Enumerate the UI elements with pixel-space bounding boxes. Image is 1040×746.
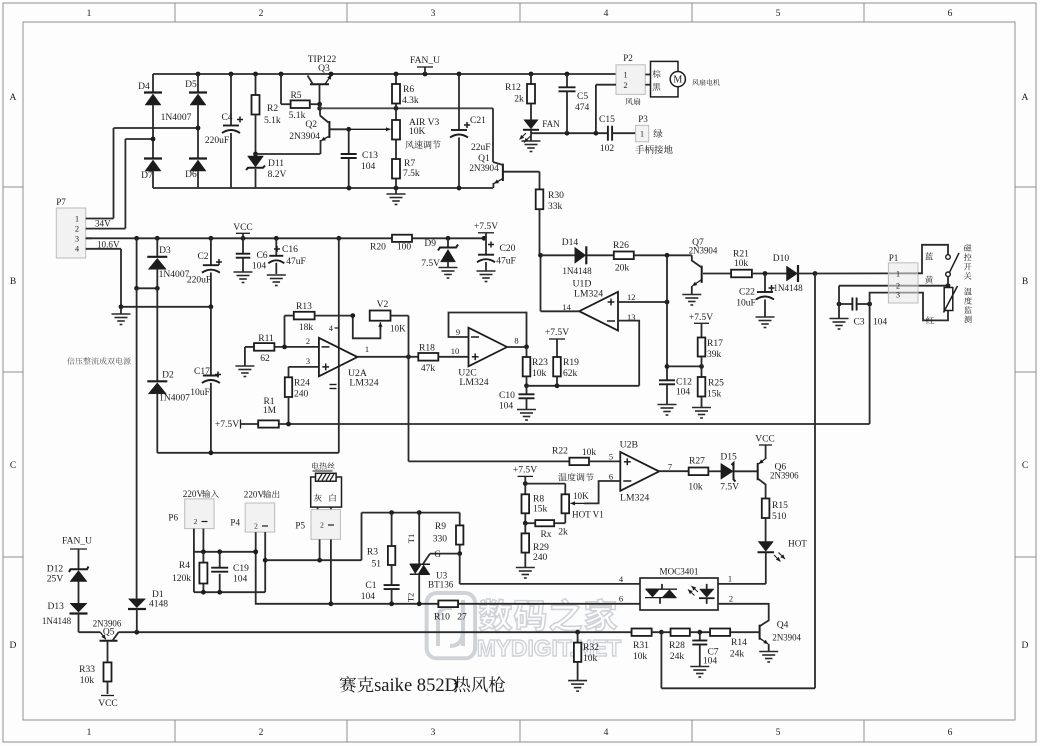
svg-text:1N4007: 1N4007 (161, 112, 192, 123)
svg-text:D6: D6 (185, 169, 197, 180)
svg-text:10uF: 10uF (190, 387, 210, 398)
wire triac bottom row (331, 601, 439, 606)
resistor R10 (434, 601, 640, 623)
ground R29 (516, 568, 535, 579)
resistor R26 (587, 240, 692, 274)
resistor R8 (522, 484, 548, 524)
ground C16 (267, 275, 286, 286)
svg-text:R12: R12 (505, 82, 521, 93)
svg-text:D5: D5 (185, 79, 197, 90)
svg-text:R9: R9 (435, 521, 446, 532)
zener D12 (47, 564, 89, 604)
ground C12 (658, 405, 677, 416)
svg-text:7: 7 (668, 462, 672, 472)
svg-text:LM324: LM324 (349, 378, 378, 389)
svg-text:C16: C16 (282, 244, 298, 255)
resistor R6 (392, 74, 419, 120)
diode D3 (147, 238, 189, 288)
svg-text:120k: 120k (172, 573, 191, 584)
svg-text:5.1k: 5.1k (289, 110, 306, 121)
resistor R4 (172, 552, 207, 592)
svg-text:D3: D3 (159, 245, 171, 256)
optocoupler MOC3401 (619, 567, 733, 611)
ground R11 (235, 347, 254, 377)
wire P5 right pin (329, 539, 334, 606)
svg-text:LM324: LM324 (574, 289, 603, 300)
wire negative rail loop (157, 450, 338, 455)
svg-text:P7: P7 (56, 197, 66, 207)
svg-text:1N4148: 1N4148 (42, 616, 72, 626)
svg-text:P2: P2 (623, 53, 633, 63)
zener D11 (246, 152, 287, 188)
wire R23 R19 pin13 row (524, 383, 639, 388)
svg-text:9: 9 (456, 327, 460, 337)
svg-text:BT136: BT136 (428, 580, 454, 590)
transistor Q5 2N3906 (93, 619, 122, 663)
svg-text:2: 2 (623, 81, 627, 90)
svg-text:47uF: 47uF (286, 256, 306, 267)
svg-text:D: D (1022, 640, 1029, 651)
wire pin12 column (665, 255, 670, 380)
svg-text:D13: D13 (47, 601, 64, 612)
ground C22 (756, 317, 775, 328)
svg-text:5: 5 (609, 452, 613, 462)
ground C3 (830, 304, 849, 329)
connector P3 (636, 114, 649, 142)
svg-text:R4: R4 (179, 560, 190, 571)
svg-text:5.1k: 5.1k (264, 115, 281, 126)
wire U2A output node (357, 316, 411, 462)
resistor R24 (285, 377, 310, 424)
svg-text:24k: 24k (670, 651, 685, 662)
svg-text:C: C (1022, 460, 1028, 471)
label T2 (406, 593, 416, 602)
svg-text:10k: 10k (583, 653, 598, 664)
node +7.5V temp divider (513, 465, 537, 484)
capacitor C20 (477, 238, 516, 271)
svg-text:VCC: VCC (98, 698, 118, 709)
wire U1D output to node (538, 253, 579, 311)
wire U1D pin12 (618, 300, 669, 305)
svg-text:1: 1 (896, 269, 900, 278)
svg-text:10k: 10k (688, 482, 703, 493)
svg-text:+7.5V: +7.5V (215, 419, 239, 430)
svg-text:2: 2 (320, 521, 324, 530)
svg-text:22uF: 22uF (471, 142, 491, 153)
svg-text:R33: R33 (79, 664, 95, 675)
svg-text:C1: C1 (365, 580, 376, 591)
node +7.5V rail end (474, 221, 498, 238)
resistor R7 (392, 140, 420, 189)
svg-text:2: 2 (194, 517, 198, 526)
resistor R19 (553, 357, 579, 386)
wire U1D pin13 loop (618, 321, 639, 386)
resistor Rx (523, 520, 568, 540)
svg-text:1: 1 (87, 727, 92, 738)
svg-text:Q4: Q4 (777, 620, 789, 631)
wire P7 pin4 to ground (86, 249, 121, 307)
wire C15 to P3 (612, 132, 636, 134)
connector P6 (168, 489, 219, 529)
resistor R9 (433, 513, 464, 554)
transistor Q6 2N3906 (758, 459, 799, 499)
svg-text:G: G (434, 549, 441, 559)
wire C3 left to pin2 net (838, 286, 840, 304)
svg-text:R26: R26 (613, 240, 629, 251)
wire P7 pin3 10.6V (86, 238, 120, 249)
svg-text:15k: 15k (533, 504, 548, 515)
svg-text:10k: 10k (633, 651, 648, 662)
svg-text:MOC3401: MOC3401 (660, 567, 699, 577)
svg-text:330: 330 (433, 534, 448, 545)
node +7.5V R17 (689, 312, 713, 338)
resistor R31 (632, 629, 664, 663)
svg-text:2N3904: 2N3904 (772, 633, 801, 643)
svg-text:6: 6 (948, 727, 953, 738)
label fan (625, 98, 640, 105)
svg-text:7.5V: 7.5V (421, 258, 440, 269)
label magnetic switch vertical (964, 244, 972, 279)
wire P1 pin1 blue to switch (918, 245, 948, 273)
svg-text:+7.5V: +7.5V (689, 312, 713, 323)
svg-text:R3: R3 (367, 547, 378, 558)
wire D11 node to Q2 emitter (256, 153, 321, 155)
wire U2B output (659, 470, 689, 472)
capacitor C21 (450, 74, 491, 188)
heater element (311, 473, 342, 507)
svg-text:27: 27 (457, 612, 467, 623)
resistor R30 (536, 172, 564, 256)
svg-text:C3: C3 (853, 317, 864, 328)
column ticks top/bottom (175, 3, 864, 742)
node VCC R33 (98, 696, 118, 710)
wire C12 R17 junction row (667, 364, 704, 369)
wire P2 pin1 rail into motor (645, 75, 650, 85)
svg-text:15k: 15k (707, 389, 722, 400)
svg-text:1: 1 (728, 574, 732, 584)
svg-text:102: 102 (600, 143, 615, 154)
resistor R25 (698, 366, 724, 407)
svg-text:Rx: Rx (540, 529, 551, 540)
wire P4 right pin column (263, 532, 268, 592)
resistor R28 (652, 629, 710, 663)
svg-text:34V: 34V (95, 219, 111, 229)
svg-text:104: 104 (361, 591, 376, 602)
op-amp U1D (562, 279, 635, 331)
capacitor C19 (211, 552, 249, 592)
wire fan top rail (153, 72, 616, 77)
zener D15 (720, 452, 758, 493)
diode D4 (138, 74, 162, 139)
diode D10 (773, 253, 815, 293)
svg-text:10K: 10K (390, 324, 406, 334)
svg-text:1N4007: 1N4007 (159, 269, 190, 280)
wire node jumper (137, 286, 160, 291)
label red (926, 316, 934, 323)
svg-text:1N4148: 1N4148 (773, 283, 803, 293)
connector P5 (295, 510, 340, 540)
resistor R5 (281, 74, 320, 121)
capacitor C12 (659, 377, 692, 405)
ground C20 (477, 271, 496, 282)
svg-text:33k: 33k (548, 201, 563, 212)
wire op-amp power column (338, 238, 340, 452)
capacitor C4 (205, 74, 243, 188)
svg-text:220uF: 220uF (205, 135, 229, 146)
svg-text:3: 3 (896, 291, 900, 300)
wire mains rail upper (194, 549, 258, 554)
ground R32 (568, 681, 587, 692)
svg-text:220V: 220V (183, 489, 204, 499)
node FAN_U top (410, 55, 440, 74)
svg-text:5: 5 (776, 727, 781, 738)
wire P7 pin1 34V (86, 219, 114, 229)
LED HOT (758, 539, 808, 562)
svg-text:10k: 10k (80, 675, 95, 686)
svg-text:P5: P5 (295, 521, 305, 531)
svg-text:U2B: U2B (620, 439, 639, 450)
svg-text:R2: R2 (267, 103, 278, 114)
svg-text:D10: D10 (773, 253, 790, 264)
resistor R12 (505, 74, 535, 120)
resistor R18 (409, 343, 469, 375)
label voltage doubler (67, 357, 130, 364)
svg-text:R27: R27 (689, 456, 705, 467)
wire U2A out to R22 column (409, 460, 570, 462)
svg-text:LM324: LM324 (459, 377, 488, 388)
svg-text:MYDIGIT.NET: MYDIGIT.NET (477, 635, 621, 661)
svg-text:LM324: LM324 (620, 493, 649, 504)
svg-text:10k: 10k (582, 447, 597, 458)
svg-text:3: 3 (431, 8, 436, 19)
resistor R1 (258, 396, 279, 428)
svg-text:2: 2 (259, 727, 264, 738)
wire switched live row (265, 513, 361, 563)
wire U2A pin3 (289, 367, 319, 377)
svg-text:B: B (1022, 276, 1028, 287)
svg-text:D14: D14 (562, 237, 579, 248)
node FAN_U sense (62, 536, 92, 570)
svg-text:240: 240 (533, 552, 548, 563)
svg-text:6: 6 (948, 8, 953, 19)
svg-text:R30: R30 (548, 190, 564, 201)
capacitor C17 (190, 307, 221, 453)
wire pot bottom to Rx (554, 513, 565, 523)
svg-text:T1: T1 (406, 534, 416, 543)
diode D13 (42, 601, 88, 632)
ground Q7 (682, 295, 701, 306)
wire thermo signal row (279, 422, 870, 427)
potentiometer AIR V3 (349, 117, 440, 140)
op-amp U2A (306, 336, 379, 389)
svg-text:C6: C6 (256, 250, 267, 261)
svg-text:1N4148: 1N4148 (562, 266, 592, 276)
svg-text:A: A (1022, 92, 1029, 103)
node VCC (233, 222, 253, 238)
svg-text:2: 2 (254, 522, 258, 531)
wire triac T1 rail (362, 510, 460, 515)
watermark latin (477, 635, 621, 661)
svg-text:1: 1 (640, 130, 644, 139)
diode D1 (128, 589, 168, 632)
svg-text:1N4007: 1N4007 (159, 393, 190, 404)
ground fan supply (387, 188, 406, 205)
resistor R23 (523, 347, 548, 386)
svg-text:C15: C15 (599, 114, 615, 125)
svg-text:C2: C2 (197, 251, 208, 262)
wire P7 pin2 (86, 228, 126, 230)
svg-text:62k: 62k (563, 368, 578, 379)
diode D5 (185, 74, 207, 128)
svg-text:R13: R13 (296, 301, 312, 312)
svg-text:2k: 2k (514, 94, 524, 105)
svg-text:C13: C13 (362, 150, 378, 161)
svg-text:P1: P1 (889, 253, 899, 263)
label green wire (653, 129, 662, 138)
svg-text:C22: C22 (739, 287, 755, 298)
svg-text:D7: D7 (141, 170, 153, 181)
transistor Q7 2N3904 (689, 237, 731, 295)
svg-text:R11: R11 (258, 333, 274, 344)
svg-text:51: 51 (371, 559, 381, 570)
magnetic switch (946, 253, 959, 286)
capacitor C22 (736, 274, 774, 318)
svg-text:104: 104 (233, 574, 248, 585)
resistor R11 (245, 333, 319, 364)
resistor R13 (285, 301, 353, 333)
svg-text:4: 4 (75, 245, 79, 254)
label T1 (406, 534, 416, 543)
svg-text:8: 8 (514, 336, 518, 346)
transistor Q1 2N3904 (469, 153, 539, 188)
svg-text:12: 12 (627, 292, 635, 302)
svg-text:2: 2 (75, 225, 79, 234)
svg-text:240: 240 (294, 389, 309, 400)
wire P5 left pin (319, 539, 321, 560)
svg-text:104: 104 (252, 261, 267, 272)
row ticks left/right (3, 187, 1036, 557)
resistor R32 (574, 632, 599, 680)
svg-text:2N3904: 2N3904 (469, 163, 499, 173)
svg-text:3: 3 (306, 356, 310, 366)
svg-text:HOT V1: HOT V1 (572, 510, 604, 520)
label temperature monitor vertical (964, 288, 972, 323)
resistor R29 (522, 523, 550, 567)
connector P7 (56, 197, 86, 258)
svg-text:5: 5 (776, 8, 781, 19)
svg-text:P3: P3 (638, 114, 648, 124)
wire D10 node column (813, 271, 918, 688)
op-amp U2C (451, 327, 519, 388)
transistor Q3 TIP122 (308, 54, 337, 104)
svg-text:104: 104 (873, 317, 888, 328)
svg-text:VCC: VCC (755, 434, 775, 445)
svg-text:18k: 18k (299, 322, 314, 333)
svg-text:R28: R28 (669, 640, 685, 651)
resistor R27 (688, 456, 721, 493)
capacitor C7 (692, 632, 718, 666)
resistor R3 (367, 513, 395, 586)
watermark logo box (427, 593, 476, 658)
title (340, 675, 505, 696)
svg-text:C5: C5 (577, 91, 588, 102)
svg-text:3: 3 (431, 727, 436, 738)
svg-text:saike 852D: saike 852D (374, 675, 458, 696)
node R5 Q3 base (317, 102, 322, 111)
wire LED C5 C15 row (531, 131, 608, 136)
svg-text:R32: R32 (583, 642, 599, 653)
svg-text:47k: 47k (421, 363, 436, 374)
svg-text:R23: R23 (532, 357, 548, 368)
svg-text:1: 1 (623, 71, 627, 80)
svg-text:220uF: 220uF (187, 275, 211, 286)
capacitor C15 (599, 114, 615, 154)
svg-text:2: 2 (729, 594, 733, 604)
ground Q4 (759, 652, 778, 663)
svg-text:VCC: VCC (233, 222, 253, 233)
svg-text:104: 104 (703, 656, 718, 667)
svg-text:39k: 39k (707, 349, 722, 360)
wire LED HOT to MOC pin1 (718, 552, 766, 584)
wire P1 pin3 net red (870, 293, 948, 424)
diode D2 (147, 288, 190, 453)
label fan speed adjust (405, 140, 440, 148)
svg-text:2: 2 (259, 8, 264, 19)
connector P4 (230, 490, 279, 533)
resistor R17 (698, 338, 723, 367)
svg-text:10: 10 (451, 346, 459, 356)
wire U2C output (507, 344, 529, 349)
watermark chinese (479, 599, 617, 632)
wire VCC rail (86, 236, 487, 241)
svg-text:62: 62 (260, 353, 270, 364)
svg-text:1: 1 (365, 344, 369, 354)
svg-text:2N3904: 2N3904 (289, 131, 320, 142)
ground C7 (690, 667, 709, 678)
svg-text:4: 4 (604, 727, 609, 738)
resistor R21 (731, 249, 786, 278)
svg-text:+7.5V: +7.5V (545, 327, 569, 338)
LED FAN (520, 119, 561, 143)
resistor R14 (710, 629, 747, 660)
svg-text:M: M (673, 75, 682, 86)
svg-text:Q2: Q2 (305, 119, 317, 130)
svg-text:7.5V: 7.5V (720, 482, 739, 493)
svg-text:104: 104 (499, 401, 514, 412)
svg-text:1: 1 (75, 215, 79, 224)
label 1N4007 bridge (161, 112, 192, 123)
pin 4 label U2A supply (329, 323, 339, 333)
resistor R2 (252, 74, 281, 154)
svg-text:10k: 10k (734, 258, 749, 269)
svg-text:100: 100 (397, 242, 412, 253)
wire P6 pins down (194, 529, 204, 593)
svg-text:Q3: Q3 (318, 63, 330, 74)
svg-text:2k: 2k (558, 527, 568, 538)
wire P2 pin2 to LED row (596, 85, 616, 134)
thermo sensor element (944, 286, 958, 313)
wire temp divider top (523, 481, 565, 494)
svg-text:D11: D11 (268, 158, 284, 169)
svg-text:3: 3 (75, 235, 79, 244)
svg-text:FAN_U: FAN_U (410, 55, 440, 66)
svg-text:4: 4 (604, 8, 609, 19)
connector P2 (616, 53, 645, 94)
svg-text:R10: R10 (434, 612, 450, 623)
transistor Q4 2N3904 (730, 620, 801, 652)
svg-text:+7.5V: +7.5V (513, 465, 537, 476)
svg-text:104: 104 (361, 161, 376, 172)
